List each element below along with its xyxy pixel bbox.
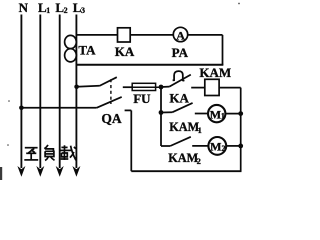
node control bus mid <box>159 110 164 115</box>
current transformer TA <box>65 35 77 62</box>
motor M2 <box>208 137 226 155</box>
svg-text:KAM: KAM <box>168 151 198 165</box>
motor M1 <box>208 105 225 122</box>
ammeter PA <box>173 27 187 41</box>
switch QA linkage <box>110 79 112 104</box>
svg-text:KA: KA <box>169 91 189 106</box>
arrow L2 <box>56 166 64 177</box>
node control bus top <box>159 85 164 90</box>
contact KAM2 <box>161 145 170 147</box>
svg-text:1: 1 <box>221 112 225 121</box>
wire row1 to rail <box>219 87 241 89</box>
wire control bus <box>160 87 162 146</box>
rail right <box>240 88 242 172</box>
node M2 rail <box>238 144 243 149</box>
contact KAM1 <box>161 111 172 113</box>
node M1 rail <box>238 111 243 116</box>
svg-text:1: 1 <box>46 6 50 15</box>
switch QA pole 1 <box>77 86 100 87</box>
svg-text:2: 2 <box>222 144 226 153</box>
contact KA <box>161 86 169 88</box>
svg-text:QA: QA <box>101 111 122 126</box>
wire CT secondary bottom <box>76 64 223 66</box>
switch QA pole 2 <box>21 107 96 109</box>
svg-text:KAM: KAM <box>199 65 231 80</box>
feeder wire L1 <box>39 15 41 169</box>
feeder wire L2 <box>59 15 61 169</box>
label load: fu <box>44 145 54 161</box>
svg-text:TA: TA <box>78 43 96 58</box>
svg-text:M: M <box>210 140 221 154</box>
wire return stub <box>125 109 132 111</box>
feeder wire N <box>20 15 22 169</box>
label load: zhi <box>24 148 38 160</box>
svg-text:N: N <box>19 0 29 15</box>
relay coil KA <box>118 28 131 42</box>
svg-text:M: M <box>210 107 221 121</box>
svg-text:3: 3 <box>81 6 85 15</box>
svg-text:KAM: KAM <box>169 120 199 134</box>
node N control tap <box>19 106 24 111</box>
svg-text:2: 2 <box>197 156 201 166</box>
svg-text:FU: FU <box>133 91 151 106</box>
contactor coil KAM <box>205 79 219 95</box>
svg-text:PA: PA <box>172 45 189 60</box>
feeder wire L3 <box>75 15 77 169</box>
fuse FU <box>132 83 155 90</box>
svg-text:KA: KA <box>115 44 135 59</box>
svg-text:2: 2 <box>64 6 68 15</box>
wire CT secondary right <box>222 35 224 65</box>
node L3 control tap <box>74 85 79 90</box>
arrow L3 <box>72 166 80 177</box>
arrow N <box>17 166 25 177</box>
label load: zai <box>60 145 76 160</box>
wire M2 to rail <box>226 145 241 147</box>
wire CT secondary top <box>76 34 222 36</box>
wire M1 to rail <box>225 113 240 115</box>
arrow L1 <box>36 166 44 177</box>
svg-text:A: A <box>176 28 185 42</box>
svg-text:1: 1 <box>198 125 202 135</box>
wire return bottom <box>131 170 241 172</box>
wire return left vertical <box>130 110 132 171</box>
